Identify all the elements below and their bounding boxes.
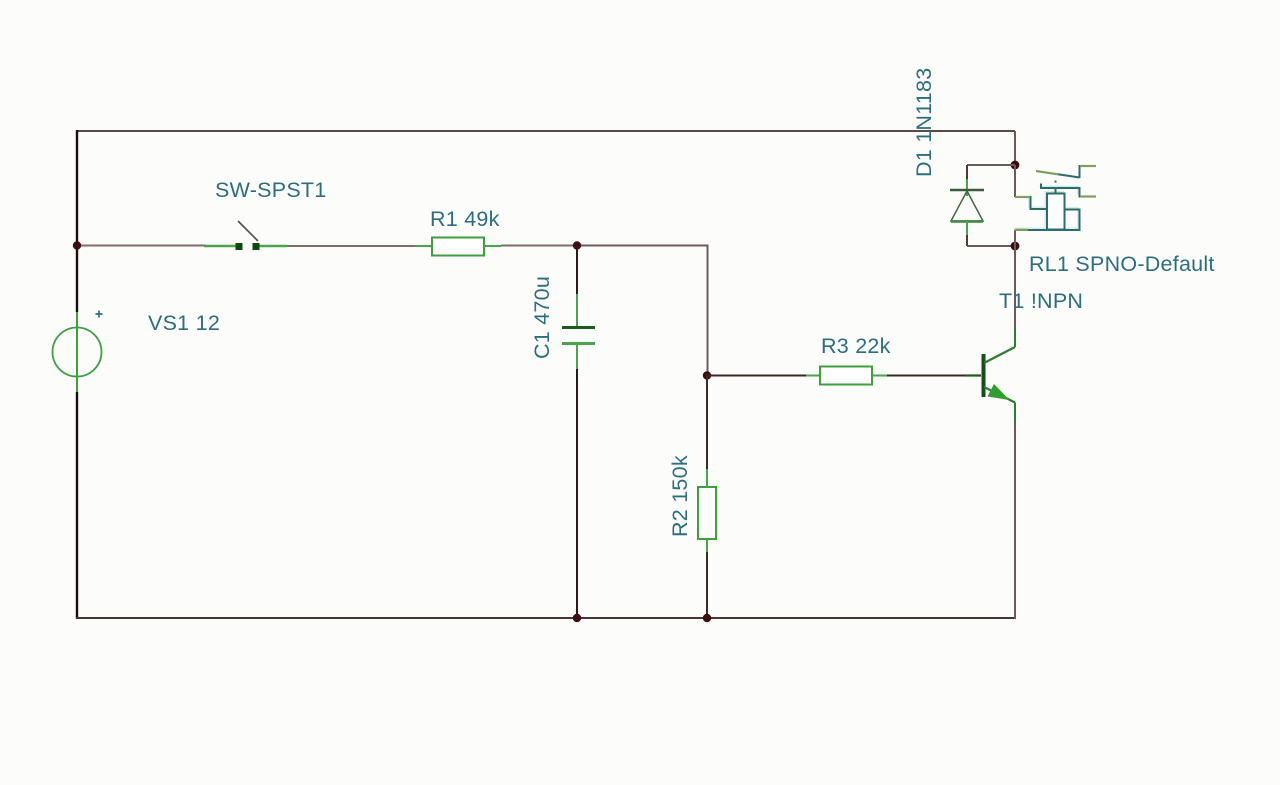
svg-text:SW-SPST1: SW-SPST1 xyxy=(215,178,327,202)
switch SW-SPST1 xyxy=(204,178,327,250)
wire switch to R1 xyxy=(287,245,415,247)
resistor R1 xyxy=(415,207,501,256)
wire node row left xyxy=(77,245,206,247)
wire emitter drop xyxy=(1014,423,1016,619)
voltage source VS1 xyxy=(53,311,221,393)
diode D1 xyxy=(912,68,1015,246)
wire left rail upper xyxy=(76,130,78,312)
resistor R3 xyxy=(806,334,891,385)
relay coil right pin xyxy=(1015,210,1080,231)
junction node bottom C1 xyxy=(573,614,581,622)
wire relay series bottom xyxy=(1014,230,1016,246)
relay fixed contact bar xyxy=(1041,184,1081,197)
junction node C1 top xyxy=(573,241,581,249)
wire bottom rail xyxy=(76,617,1015,619)
junction node bottom R2 xyxy=(703,614,711,622)
wire node to corner and down xyxy=(577,246,708,376)
svg-text:RL1 SPNO-Default: RL1 SPNO-Default xyxy=(1029,252,1215,276)
svg-text:R3 22k: R3 22k xyxy=(821,334,891,358)
svg-text:VS1 12: VS1 12 xyxy=(148,311,220,335)
relay blade terminal step xyxy=(1080,166,1082,178)
svg-text:R1 49k: R1 49k xyxy=(430,207,500,231)
junction node relay top xyxy=(1011,161,1020,170)
node dot left rail xyxy=(73,241,81,249)
junction node R2/base row xyxy=(703,371,711,379)
svg-text:C1 470u: C1 470u xyxy=(530,276,554,359)
relay link dash xyxy=(1055,181,1057,194)
relay RL1 xyxy=(1014,166,1215,276)
transistor T1 xyxy=(965,289,1083,423)
wire left rail lower xyxy=(76,392,78,619)
svg-text:D1 1N1183: D1 1N1183 xyxy=(912,68,936,177)
wire top right drop xyxy=(1014,131,1016,165)
junction node relay bottom xyxy=(1011,242,1020,251)
relay coil left pin xyxy=(1030,197,1048,209)
relay coil box xyxy=(1047,194,1065,230)
wire top rail xyxy=(77,130,1015,132)
wire collector riser xyxy=(1014,246,1016,328)
resistor R2 xyxy=(668,376,716,620)
wire R1 to node xyxy=(501,245,578,247)
svg-text:T1 !NPN: T1 !NPN xyxy=(999,289,1083,313)
wire relay series top xyxy=(1014,165,1016,197)
svg-text:R2 150k: R2 150k xyxy=(668,455,692,537)
wire base row left xyxy=(707,375,806,377)
wire R3 to T1 base xyxy=(887,375,965,377)
relay moving contact blade xyxy=(1058,174,1080,177)
capacitor C1 xyxy=(530,246,595,620)
